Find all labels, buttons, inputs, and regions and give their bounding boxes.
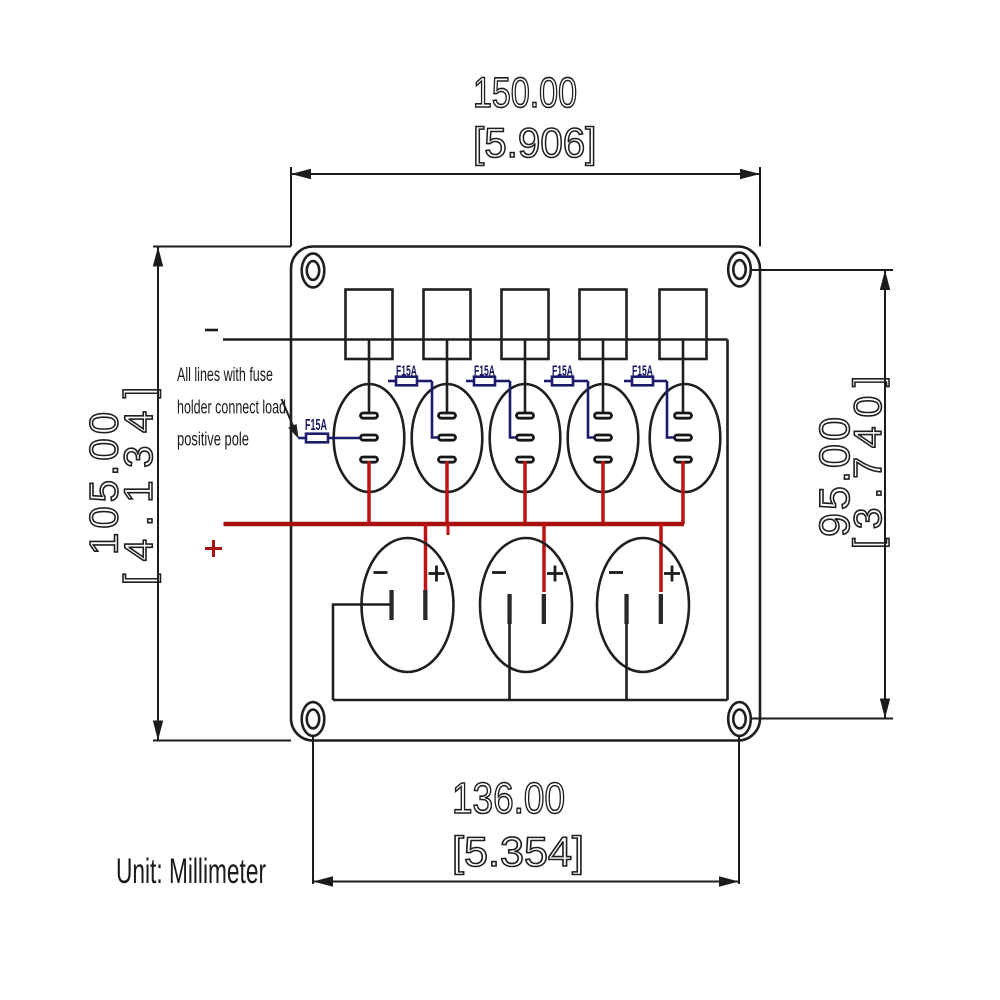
socket P1 plus label <box>429 566 445 582</box>
switch S5 stem wire <box>682 340 685 415</box>
switch S5 body <box>660 290 707 360</box>
rocker switch S4 outline <box>568 384 639 492</box>
switch S1 load wire red <box>367 461 371 524</box>
switch S4 pin 3 <box>595 457 612 462</box>
dimension 95.00 line <box>884 270 886 719</box>
enclosure bottom edge wire <box>333 699 728 702</box>
switch S4 load wire red <box>601 461 605 524</box>
svg-text:F15A: F15A <box>305 417 327 434</box>
switch S5 load wire red <box>681 461 685 524</box>
dimension 95.00 arrow top <box>880 270 890 290</box>
svg-text:[3.740]: [3.740] <box>847 376 890 549</box>
svg-text:136.00: 136.00 <box>452 774 565 823</box>
socket P3 plus label <box>664 566 680 582</box>
socket P1 outline <box>362 538 454 672</box>
bus stub below junction S2 <box>447 524 450 535</box>
dimension 150.00 extension line right <box>759 167 761 247</box>
switch S3 pin 2 <box>517 435 534 440</box>
switch S5 pin 3 <box>675 457 692 462</box>
dimension 95.00 extension line top <box>752 269 893 271</box>
socket P2 negative wire <box>508 622 511 700</box>
socket P2 minus label <box>492 571 506 574</box>
mounting hole top-right <box>728 253 751 287</box>
socket P3 negative pin <box>624 594 628 624</box>
svg-text:150.00: 150.00 <box>473 70 577 117</box>
dimension 150.00 line <box>291 173 760 175</box>
fuse F3 <box>466 377 517 438</box>
switch S1 pin 3 <box>361 457 378 462</box>
dimension 136.00 arrow left <box>313 876 333 886</box>
switch S3 load wire red <box>523 461 527 524</box>
socket P1 negative wire <box>333 605 391 701</box>
dimension 150.00 arrow left <box>291 169 311 179</box>
dimension 105.00 extension line top <box>153 246 291 248</box>
svg-text:[4.134]: [4.134] <box>117 387 161 585</box>
socket P2 plus label <box>547 566 563 582</box>
note leader line <box>282 399 298 435</box>
socket P1 negative pin <box>389 590 393 620</box>
svg-text:F15A: F15A <box>632 364 653 380</box>
mounting hole bottom-right <box>728 702 751 736</box>
switch S1 pin 1 <box>361 413 378 418</box>
svg-text:F15A: F15A <box>474 364 495 380</box>
switch S4 body <box>580 290 627 360</box>
switch S4 pin 1 <box>595 413 612 418</box>
dimension 105.00 arrow bottom <box>153 721 163 741</box>
switch S2 pin 1 <box>439 413 456 418</box>
negative bus wire <box>223 338 728 341</box>
svg-text:All lines with fuse: All lines with fuse <box>177 364 273 386</box>
positive bus wire red <box>224 522 685 527</box>
dimension 105.00 extension line bottom <box>153 740 291 742</box>
dimension 136.00 extension line left <box>312 736 314 884</box>
switch S3 pin 3 <box>517 457 534 462</box>
svg-text:Unit: Millimeter: Unit: Millimeter <box>116 852 266 891</box>
rocker switch S5 outline <box>650 384 721 492</box>
svg-text:[5.906]: [5.906] <box>473 119 597 166</box>
socket P3 negative wire <box>625 622 628 700</box>
mounting hole bottom-left <box>302 702 325 736</box>
switch S5 pin 1 <box>675 413 692 418</box>
minus label <box>205 329 218 332</box>
dimension 136.00 arrow right <box>719 876 739 886</box>
switch S2 load wire red <box>445 461 449 524</box>
socket P1 positive wire red <box>424 524 428 592</box>
dimension 105.00 line <box>157 247 159 741</box>
switch S4 pin 2 <box>595 435 612 440</box>
svg-text:holder connect load: holder connect load <box>177 397 286 419</box>
socket P3 minus label <box>609 571 623 574</box>
fuse F2 <box>388 377 439 438</box>
switch S3 pin 1 <box>517 413 534 418</box>
enclosure right edge wire <box>726 340 729 701</box>
plus label red <box>205 540 222 557</box>
dimension 105.00 arrow top <box>153 247 163 267</box>
switch S2 body <box>424 290 471 360</box>
switch S3 stem wire <box>524 340 527 415</box>
svg-text:[5.354]: [5.354] <box>452 828 584 875</box>
switch S5 pin 2 <box>675 435 692 440</box>
rocker switch S2 outline <box>412 384 483 492</box>
switch S1 body <box>346 290 393 360</box>
note leader arrowhead <box>290 425 298 436</box>
rocker switch S3 outline <box>490 384 561 492</box>
svg-text:F15A: F15A <box>552 364 573 380</box>
switch S2 stem wire <box>446 340 449 415</box>
socket P2 negative pin <box>507 594 511 624</box>
switch S3 body <box>502 290 549 360</box>
fuse F1 <box>299 434 361 443</box>
svg-text:F15A: F15A <box>396 364 417 380</box>
dimension 150.00 arrow right <box>740 169 760 179</box>
dimension 95.00 arrow bottom <box>880 699 890 719</box>
socket P1 positive pin <box>423 590 427 620</box>
fuse F5 <box>624 377 675 438</box>
switch S2 pin 2 <box>439 435 456 440</box>
switch S2 pin 3 <box>439 457 456 462</box>
socket P2 positive wire red <box>542 524 546 592</box>
socket P3 positive wire red <box>659 524 663 592</box>
dimension 150.00 extension line left <box>290 167 292 247</box>
socket P3 outline <box>597 538 689 672</box>
switch S1 stem wire <box>368 340 371 415</box>
socket P2 outline <box>480 538 572 672</box>
svg-text:positive pole: positive pole <box>177 429 249 451</box>
dimension 136.00 line <box>313 881 739 883</box>
rocker switch S1 outline <box>334 384 405 492</box>
mounting hole top-left <box>302 254 325 288</box>
dimension 136.00 extension line right <box>738 736 740 884</box>
switch S4 stem wire <box>602 340 605 415</box>
socket P3 positive pin <box>659 594 663 624</box>
fuse F4 <box>544 377 595 438</box>
panel outline <box>291 247 760 741</box>
socket P1 minus label <box>374 571 388 574</box>
socket P2 positive pin <box>542 594 546 624</box>
dimension 95.00 extension line bottom <box>751 718 893 720</box>
switch S1 pin 2 <box>361 435 378 440</box>
